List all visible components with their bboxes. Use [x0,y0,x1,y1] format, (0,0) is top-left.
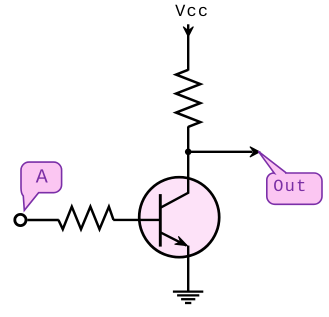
wire output (horizontal) [188,151,252,153]
wire resistor to collector [187,126,189,193]
power arrow (down) on Vcc wire [183,27,193,37]
callout label A (speech bubble) [21,162,62,210]
svg-text:A: A [36,166,48,189]
transistor Q1 base bar [159,194,162,247]
output arrowhead (right) [250,147,260,157]
ground symbol [173,292,203,303]
wire terminal to resistor [27,219,58,221]
wire resistor to base [113,219,160,221]
terminal A (open circle) [15,214,26,225]
node junction (collector / output) [185,149,192,156]
svg-text:Out: Out [273,178,307,197]
wire emitter to ground [187,246,189,292]
transistor Q1 body (circle) [139,177,219,257]
wire Vcc supply (vertical) [187,24,189,70]
transistor Q1 collector lead [160,177,188,208]
svg-text:Vcc: Vcc [175,3,209,22]
transistor Q1 emitter arrowhead [175,236,188,245]
resistor (base, horizontal zigzag) [58,207,113,230]
transistor Q1 emitter lead [160,232,186,245]
callout label Out (speech bubble) [258,151,322,204]
resistor (collector, vertical zigzag) [176,70,200,127]
